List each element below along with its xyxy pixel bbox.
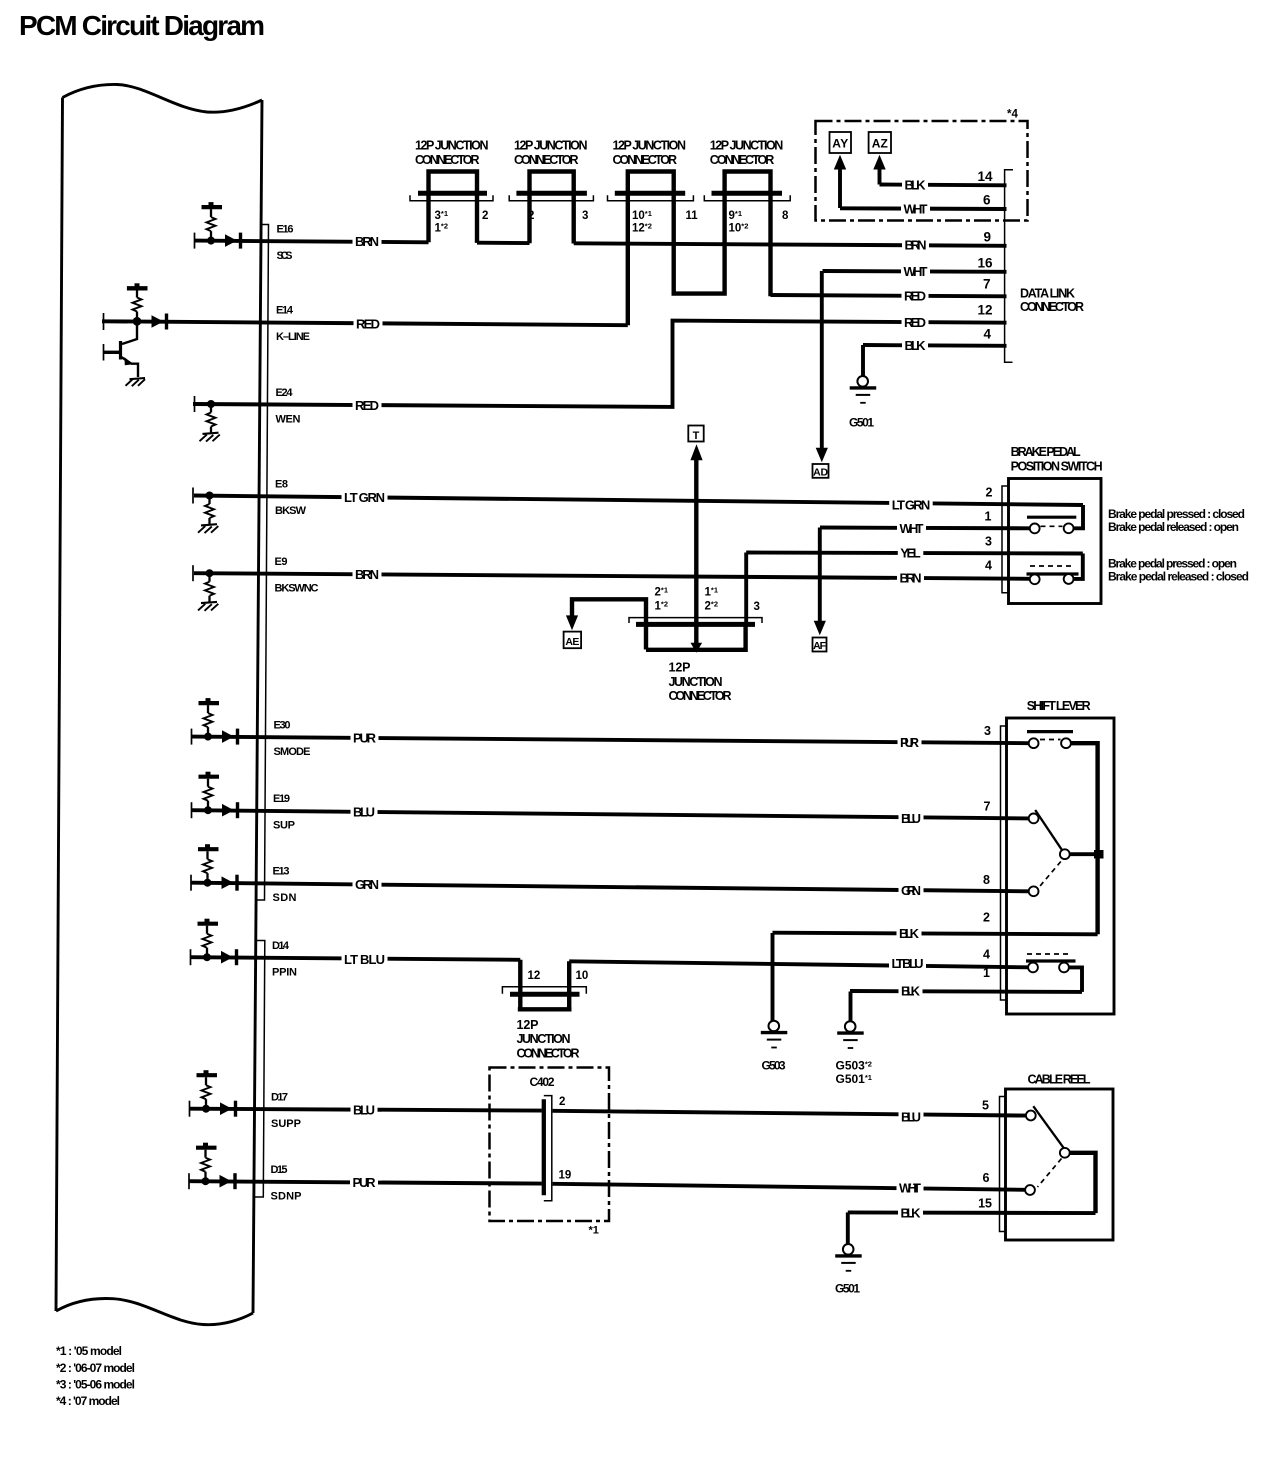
svg-text:7: 7 — [984, 800, 991, 814]
svg-text:DATA LINK: DATA LINK — [1020, 287, 1075, 301]
brake switch upper contact arm (closed bar) — [1027, 516, 1076, 519]
svg-text:CABLE REEL: CABLE REEL — [1028, 1073, 1091, 1087]
wire YEL drop to middle junction pin3 — [744, 553, 748, 623]
svg-text:AY: AY — [832, 137, 848, 151]
brake switch upper left contact — [1030, 524, 1040, 534]
shift internal bus right — [1071, 743, 1098, 934]
wire label LT GRN — [889, 498, 933, 511]
wire E16 BRN segment A — [195, 241, 429, 243]
shift top switch right contact — [1061, 738, 1071, 748]
svg-text:G503: G503 — [762, 1059, 786, 1073]
svg-text:WEN: WEN — [276, 414, 301, 426]
wire label BRN — [897, 571, 924, 584]
E14 wire left end tick — [103, 313, 105, 330]
cable reel common contact — [1060, 1148, 1070, 1158]
arrow into AF — [818, 528, 822, 622]
svg-text:JUNCTION: JUNCTION — [517, 1032, 571, 1046]
svg-text:E19: E19 — [273, 793, 290, 805]
wire label WHT — [897, 522, 926, 535]
svg-text:1: 1 — [983, 966, 990, 980]
svg-text:AF: AF — [813, 640, 827, 652]
svg-text:WHT: WHT — [900, 521, 924, 536]
brake switch upper right-angle feed pin2 — [1074, 505, 1083, 528]
shift bottom switch link to pin1 — [1069, 967, 1082, 992]
wire label WHT — [897, 1181, 924, 1194]
12P junction connector J3 body — [628, 172, 674, 194]
svg-text:2: 2 — [559, 1096, 565, 1108]
shift bottom switch left contact — [1028, 963, 1038, 973]
J1 left pin wire — [426, 195, 430, 242]
J3 right pin wire U-link to J4 left pin — [674, 195, 725, 294]
cable reel pin5 contact — [1026, 1111, 1036, 1121]
svg-text:BRAKE PEDAL: BRAKE PEDAL — [1011, 445, 1081, 459]
svg-text:WHT: WHT — [904, 264, 928, 279]
wire BLK shift lever pin1 to G503/G501 ground — [850, 989, 1082, 994]
lower 12P junction connector bracket — [502, 987, 586, 994]
wire D14 PPIN LT BLU to junction pin12 — [191, 957, 521, 960]
svg-text:E8: E8 — [275, 479, 288, 491]
wire label PUR — [351, 732, 379, 745]
svg-text:12P JUNCTION: 12P JUNCTION — [710, 139, 784, 153]
svg-text:D17: D17 — [271, 1092, 288, 1104]
svg-text:*4 : '07 model: *4 : '07 model — [56, 1394, 120, 1408]
brake switch lower right-angle feed pin3 — [1074, 554, 1083, 579]
wire BLK cable reel pin15 to G501 — [848, 1210, 1096, 1215]
resistor R-gnd at E9 — [193, 565, 218, 611]
wire BLU C402 pin2 to cable reel pin5 — [553, 1111, 1026, 1116]
resistor R-gnd at E24 — [195, 396, 220, 442]
wire LT BLU junction pin10 to shift lever pin4 — [569, 961, 1028, 967]
cable reel lever arm — [1033, 1106, 1065, 1149]
box terminal AY — [830, 132, 852, 153]
svg-text:7: 7 — [983, 277, 991, 292]
wire T riser to middle junction connector — [694, 455, 698, 643]
svg-text:BLK: BLK — [901, 1205, 922, 1220]
wire E13 SDN GRN to shift lever pin8 — [191, 883, 1029, 892]
svg-text:Brake pedal released : open: Brake pedal released : open — [1108, 520, 1239, 534]
shift bottom switch right contact — [1059, 963, 1069, 973]
svg-text:CONNECTOR: CONNECTOR — [669, 689, 732, 703]
svg-text:10: 10 — [576, 970, 589, 982]
svg-text:RED: RED — [904, 315, 926, 330]
brake switch lower contact arm (closed bar) — [1027, 572, 1079, 575]
data link connector bracket — [1005, 170, 1013, 362]
shift rotary common contact — [1060, 849, 1070, 859]
svg-text:PUR: PUR — [900, 735, 920, 750]
wire BLK DLC pin14 from AZ — [880, 183, 1007, 188]
svg-text:RED: RED — [355, 398, 379, 413]
brake switch upper right contact — [1064, 523, 1074, 533]
wire BLK shift lever pin2 to G503 — [773, 933, 1098, 935]
C402 female terminal bracket — [544, 1096, 552, 1201]
connector C402 dash-dot box — [490, 1068, 610, 1222]
arrow into AZ — [878, 167, 882, 185]
svg-text:4: 4 — [983, 948, 990, 962]
resistor pull-up at D17 — [190, 1070, 236, 1117]
wire label BLU — [351, 1103, 378, 1116]
svg-text:E14: E14 — [276, 305, 294, 317]
svg-text:12P JUNCTION: 12P JUNCTION — [514, 139, 588, 153]
svg-text:E9: E9 — [275, 556, 288, 568]
transistor Q (K-line driver) — [103, 325, 138, 377]
brake switch upper dashed contact — [1041, 525, 1063, 527]
arrow into AY — [838, 167, 842, 208]
resistor pull-up at E16 — [195, 202, 241, 249]
resistor pull-up at D14 — [191, 919, 237, 966]
wire label BLU — [899, 812, 924, 825]
J2 right pin wire — [572, 195, 576, 244]
svg-text:SUP: SUP — [273, 820, 295, 832]
svg-text:CONNECTOR: CONNECTOR — [613, 153, 678, 167]
arrow into AE — [566, 615, 578, 630]
wire label PUR — [898, 736, 922, 749]
svg-text:BLU: BLU — [353, 805, 375, 820]
G503 ground — [771, 933, 775, 1021]
G503/G501 ground — [849, 992, 853, 1022]
J1 right pin wire — [475, 195, 479, 243]
wire E14 K-LINE RED to conn3 — [102, 321, 628, 325]
svg-text:AE: AE — [565, 636, 579, 648]
svg-text:8: 8 — [782, 210, 789, 222]
svg-text:Brake pedal released : closed: Brake pedal released : closed — [1108, 570, 1249, 584]
svg-text:1: 1 — [985, 509, 992, 523]
wire D17 SUPP BLU to C402 pin2 — [190, 1109, 542, 1111]
E connector strip bracket — [257, 225, 269, 901]
svg-text:12P JUNCTION: 12P JUNCTION — [613, 139, 687, 153]
middle 12P junction connector bar — [636, 622, 755, 627]
wire label BLK — [899, 984, 923, 997]
svg-text:K–LINE: K–LINE — [276, 331, 310, 343]
svg-text:LT GRN: LT GRN — [344, 490, 385, 505]
cable reel dashed arm — [1038, 1159, 1062, 1188]
wire label WHT — [901, 265, 930, 278]
wire WHT DLC pin6 from AY — [840, 206, 1007, 211]
svg-text:PUR: PUR — [353, 731, 377, 746]
wire RED DLC pin7 from conn4 pin8 — [771, 295, 1007, 296]
G501 ground (cable reel) — [846, 1212, 850, 1244]
wire WHT C402 pin19 to cable reel pin6 — [553, 1184, 1026, 1190]
svg-text:PPIN: PPIN — [272, 967, 297, 979]
svg-text:BRN: BRN — [905, 238, 927, 253]
wire label BLU — [351, 805, 378, 818]
svg-text:Brake pedal pressed : open: Brake pedal pressed : open — [1108, 556, 1237, 570]
svg-text:BLK: BLK — [901, 984, 921, 999]
svg-text:11: 11 — [686, 210, 699, 222]
svg-text:RED: RED — [904, 289, 926, 304]
brake switch lower left contact — [1030, 574, 1040, 584]
J4 right pin wire down to DLC pin7 run — [768, 195, 772, 296]
svg-text:19: 19 — [559, 1170, 572, 1182]
svg-text:12P JUNCTION: 12P JUNCTION — [415, 139, 489, 153]
shift bottom switch dashed contact — [1027, 953, 1070, 955]
wire label RED — [353, 399, 382, 412]
E14 pull-up resistor and T-bar — [127, 283, 148, 317]
wire label LT BLU — [889, 957, 926, 970]
node AF box — [813, 638, 827, 652]
svg-text:PCM Circuit Diagram: PCM Circuit Diagram — [19, 10, 265, 41]
svg-text:3: 3 — [984, 724, 991, 738]
node AD box — [813, 464, 829, 478]
cable reel pin6 contact — [1025, 1185, 1035, 1195]
svg-text:15: 15 — [978, 1197, 992, 1211]
wire E30 SMODE PUR to shift lever pin3 — [192, 737, 1029, 744]
svg-text:BRN: BRN — [355, 567, 379, 582]
cable reel common stub and bus — [1070, 1153, 1096, 1213]
resistor pull-up at D15 — [189, 1143, 235, 1190]
svg-text:E24: E24 — [276, 387, 294, 399]
svg-text:AZ: AZ — [872, 137, 888, 151]
svg-text:T: T — [693, 430, 700, 442]
svg-text:BLK: BLK — [905, 178, 927, 193]
svg-text:3: 3 — [985, 535, 992, 549]
svg-text:5: 5 — [982, 1099, 989, 1113]
svg-text:CONNECTOR: CONNECTOR — [514, 153, 579, 167]
svg-text:3: 3 — [582, 210, 588, 222]
svg-text:2: 2 — [986, 485, 993, 499]
wire label RED — [902, 316, 929, 329]
cable reel pin bracket — [1000, 1097, 1006, 1232]
wire label PUR — [350, 1176, 378, 1189]
svg-text:9: 9 — [983, 230, 991, 245]
svg-text:LT GRN: LT GRN — [892, 497, 931, 512]
wire E16 BRN segment conn1-conn2 — [477, 241, 530, 245]
shift top switch closed bar — [1027, 730, 1073, 733]
wire label GRN — [899, 884, 924, 897]
12P junction connector J2 body — [530, 172, 574, 194]
J3 left pin wire to K-LINE — [626, 195, 630, 325]
wire E24 WEN RED riser to DLC pin12 — [193, 321, 1007, 407]
svg-text:*1: *1 — [589, 1225, 599, 1237]
svg-text:D15: D15 — [271, 1164, 288, 1176]
svg-text:YEL: YEL — [900, 546, 921, 561]
svg-text:*4: *4 — [1007, 109, 1018, 121]
shift lever box — [1007, 718, 1115, 1014]
arrow into AD — [820, 271, 824, 448]
shift rotary pin8 contact — [1029, 886, 1039, 896]
svg-text:JUNCTION: JUNCTION — [669, 675, 723, 689]
shift rotary pin7 contact — [1029, 814, 1039, 824]
shift bottom switch closed bar — [1026, 959, 1076, 962]
svg-text:2: 2 — [482, 210, 488, 222]
node AE box — [564, 632, 582, 649]
svg-text:BKSW: BKSW — [275, 505, 307, 517]
wire label WHT — [901, 202, 930, 215]
svg-text:LT BLU: LT BLU — [892, 956, 924, 971]
wire label BLK — [898, 1206, 923, 1219]
wire label BRN — [353, 568, 382, 581]
wire E16 BRN segment conn2-DLC pin9 — [574, 243, 1007, 246]
G501 ground (DLC pin4) — [861, 345, 865, 376]
svg-text:Brake pedal pressed : closed: Brake pedal pressed : closed — [1108, 507, 1245, 521]
svg-text:GRN: GRN — [901, 883, 921, 898]
svg-text:POSITION SWITCH: POSITION SWITCH — [1011, 460, 1103, 474]
wire E8 BKSW LT GRN to brake switch pin2 — [194, 496, 1083, 506]
svg-text:SDNP: SDNP — [271, 1191, 302, 1203]
svg-text:CONNECTOR: CONNECTOR — [517, 1046, 580, 1060]
wire label BLU — [899, 1110, 924, 1123]
svg-text:3: 3 — [754, 601, 760, 613]
svg-text:BLK: BLK — [905, 338, 927, 353]
svg-text:16: 16 — [977, 256, 993, 271]
svg-text:SDN: SDN — [273, 892, 297, 904]
svg-text:SCS: SCS — [277, 250, 293, 262]
svg-text:C402: C402 — [530, 1075, 555, 1089]
wire E19 SUP BLU to shift lever pin7 — [192, 810, 1029, 818]
12P junction connector J1 body — [429, 172, 478, 194]
svg-text:WHT: WHT — [904, 201, 928, 216]
middle junction connector internal bus — [646, 625, 746, 650]
svg-text:LT BLU: LT BLU — [344, 952, 385, 967]
brake switch lower right contact — [1064, 574, 1074, 584]
wire label BRN — [902, 238, 929, 251]
transistor emitter ground — [126, 378, 146, 386]
svg-text:CONNECTOR: CONNECTOR — [1020, 300, 1084, 314]
box terminal AZ — [869, 132, 891, 153]
lower 12P junction connector pin12 wire — [518, 960, 522, 1009]
brake switch lower dashed contact — [1030, 565, 1075, 567]
svg-text:E30: E30 — [274, 720, 291, 732]
svg-text:BLU: BLU — [901, 811, 921, 826]
svg-text:RED: RED — [356, 316, 380, 331]
svg-text:*1 : '05 model: *1 : '05 model — [56, 1344, 122, 1358]
svg-text:12: 12 — [977, 303, 992, 318]
cable reel box — [1006, 1089, 1114, 1240]
wire AE to middle junction connector left pin — [572, 599, 646, 649]
brake pedal position switch box — [1009, 479, 1102, 604]
J2 left pin wire — [527, 195, 531, 243]
dash-dot box *4 — [816, 121, 1028, 221]
wire label BLK — [902, 339, 928, 352]
shift top switch dashed contact — [1040, 739, 1061, 741]
svg-text:PUR: PUR — [353, 1175, 377, 1190]
PCM body outline — [63, 84, 263, 112]
svg-text:E13: E13 — [273, 866, 290, 878]
wire label BRN — [353, 235, 382, 248]
svg-text:BLK: BLK — [899, 926, 920, 941]
12P junction connector J4 body — [725, 172, 771, 194]
arrow into middle junction connector — [691, 643, 703, 653]
shift top switch left contact — [1029, 738, 1039, 748]
wire label YEL — [898, 547, 924, 560]
svg-text:SMODE: SMODE — [274, 746, 311, 758]
shift rotary common stub — [1070, 852, 1104, 856]
wire BLK DLC pin4 from G501 — [863, 343, 1007, 348]
svg-text:GRN: GRN — [355, 877, 379, 892]
svg-text:CONNECTOR: CONNECTOR — [415, 153, 480, 167]
wire E9 BKSWNC BRN to brake switch pin4 — [194, 573, 1030, 579]
brake switch pin bracket — [1002, 486, 1009, 593]
C402 male terminal bar — [542, 1099, 546, 1195]
shift rotary lever arm — [1035, 810, 1062, 851]
wire label RED — [902, 289, 929, 302]
svg-text:*2 : '06-07 model: *2 : '06-07 model — [56, 1361, 135, 1375]
svg-text:14: 14 — [977, 169, 993, 184]
svg-text:4: 4 — [985, 559, 992, 573]
svg-text:D14: D14 — [272, 940, 290, 952]
svg-text:BKSWNC: BKSWNC — [275, 583, 319, 595]
svg-text:4: 4 — [983, 327, 991, 342]
wire D15 SDNP PUR to C402 pin19 — [189, 1181, 542, 1183]
svg-text:SHIFT LEVER: SHIFT LEVER — [1027, 699, 1091, 713]
wire YEL to brake switch pin3 — [746, 553, 1083, 554]
resistor pull-up at E19 — [192, 772, 238, 819]
wire label BLK — [902, 178, 928, 191]
svg-text:BLU: BLU — [901, 1109, 921, 1124]
shift rotary dashed arm — [1038, 862, 1061, 889]
wire label GRN — [353, 878, 382, 891]
resistor pull-up at E13 — [191, 844, 237, 891]
shift lever pin bracket — [1001, 726, 1007, 1000]
svg-text:SUPP: SUPP — [271, 1118, 301, 1130]
wire WHT DLC pin16 to AD — [823, 269, 1007, 274]
svg-text:BRN: BRN — [900, 570, 922, 585]
resistor R-gnd at E8 — [193, 488, 218, 534]
svg-text:12P: 12P — [517, 1018, 539, 1032]
lower 12P junction connector bar — [510, 992, 580, 997]
E14 junction dot — [133, 317, 142, 326]
svg-text:G501: G501 — [835, 1282, 860, 1296]
svg-text:AD: AD — [813, 466, 828, 478]
lower 12P junction connector internal bus — [518, 1007, 572, 1011]
wire label RED — [354, 317, 383, 330]
svg-text:*3 : '05-06 model: *3 : '05-06 model — [56, 1378, 135, 1392]
svg-text:2: 2 — [983, 911, 990, 925]
E14 diode — [152, 314, 167, 330]
middle 12P junction connector bracket — [629, 618, 762, 623]
wire label LT GRN — [342, 491, 388, 504]
svg-text:E16: E16 — [277, 224, 294, 236]
svg-text:12: 12 — [528, 970, 541, 982]
D connector strip bracket — [255, 941, 265, 1198]
svg-text:G501: G501 — [849, 416, 874, 430]
node T box — [688, 426, 703, 442]
arrow into T — [690, 444, 702, 460]
resistor pull-up at E30 — [192, 698, 238, 745]
svg-text:WHT: WHT — [899, 1181, 921, 1196]
wire label BLK — [897, 927, 922, 940]
svg-text:BLU: BLU — [353, 1103, 375, 1118]
svg-text:6: 6 — [983, 1171, 990, 1185]
wire WHT to brake switch pin1 — [820, 526, 1030, 531]
svg-text:BRN: BRN — [355, 234, 379, 249]
svg-text:CONNECTOR: CONNECTOR — [710, 153, 775, 167]
svg-text:6: 6 — [983, 193, 991, 208]
lower 12P junction connector pin10 wire — [567, 961, 571, 1009]
svg-text:8: 8 — [983, 873, 990, 887]
wire label LT BLU — [342, 953, 388, 966]
svg-text:12P: 12P — [669, 661, 691, 675]
